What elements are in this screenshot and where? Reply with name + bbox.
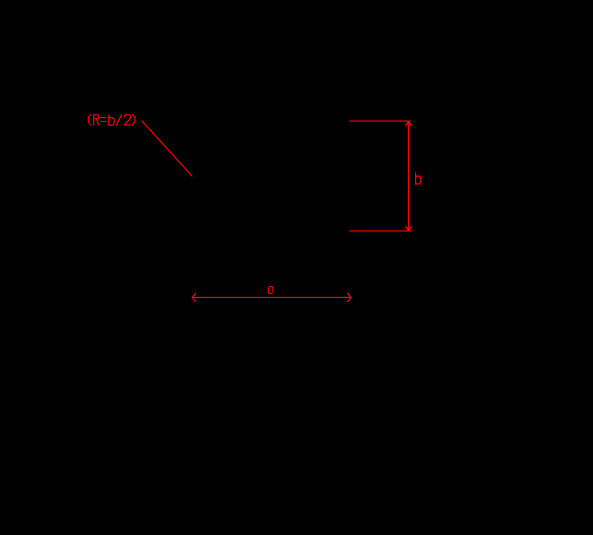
leader line — [142, 121, 192, 176]
dimension b line — [408, 121, 410, 231]
dimension b arrow down — [406, 227, 412, 231]
dimension b arrow up — [406, 121, 412, 125]
dimension a line — [192, 296, 351, 298]
label b — [416, 173, 421, 184]
dimension a arrow right — [348, 293, 351, 302]
text label (R=b/2) — [88, 114, 135, 125]
dimension b top extension line — [350, 120, 410, 122]
dimension b bottom extension line — [350, 230, 410, 232]
label a — [268, 287, 273, 294]
dimension a arrow left — [192, 293, 195, 302]
